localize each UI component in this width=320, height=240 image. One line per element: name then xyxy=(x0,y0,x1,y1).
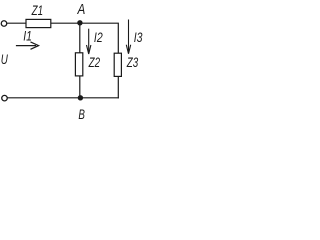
impedance Z1 xyxy=(26,19,51,27)
node B junction dot xyxy=(78,95,83,100)
svg-text:A: A xyxy=(77,0,86,17)
bottom wire T2 to corner xyxy=(7,97,119,99)
impedance Z2 xyxy=(75,53,82,76)
current arrow I2 xyxy=(87,29,91,54)
wire node A down to Z2 xyxy=(79,23,81,52)
current arrow I1 xyxy=(16,42,39,49)
node A junction dot xyxy=(77,20,82,25)
svg-text:B: B xyxy=(78,106,85,122)
svg-text:I2: I2 xyxy=(94,30,103,46)
wire Z2 to node B xyxy=(79,77,81,98)
terminal T2 (bottom-left open circle) xyxy=(2,95,8,101)
svg-text:Z2: Z2 xyxy=(88,54,100,70)
terminal T1 (top-left open circle) xyxy=(1,21,7,27)
impedance Z3 xyxy=(114,53,121,76)
wire T1 to Z1 xyxy=(7,22,26,24)
svg-text:U: U xyxy=(1,51,8,67)
current arrow I3 xyxy=(126,20,130,54)
svg-text:Z3: Z3 xyxy=(126,54,138,70)
svg-text:Z1: Z1 xyxy=(31,2,43,18)
wire Z3 down to bottom corner xyxy=(117,77,119,98)
wire Z1 to corner then down to Z3 xyxy=(51,23,118,53)
svg-text:I3: I3 xyxy=(134,29,143,45)
